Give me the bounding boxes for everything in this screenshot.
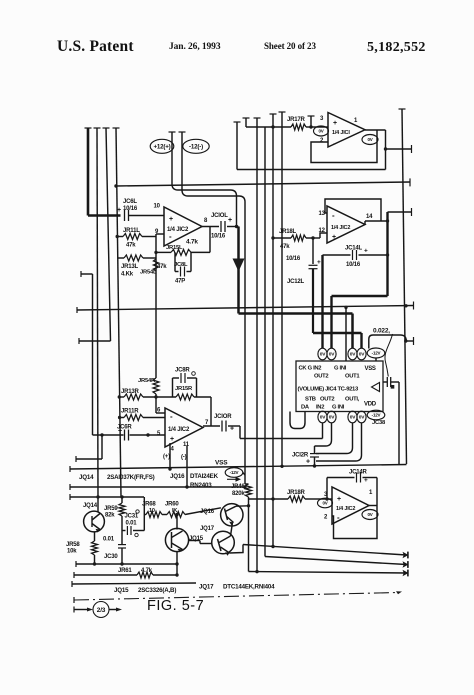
svg-text:1/4 JICI: 1/4 JICI (332, 130, 350, 136)
wire: JQ16 emitter into JQ17 base (231, 523, 233, 537)
svg-text:JR15R: JR15R (175, 386, 193, 392)
op-amp U-C 1/4 JIC2 (327, 206, 365, 243)
svg-text:2SC3326(A,B): 2SC3326(A,B) (138, 587, 176, 594)
op-amp U-A 1/4 JIC2 (164, 207, 202, 246)
node 0V oval at JIC1 + input (314, 126, 329, 136)
svg-text:JR15L: JR15L (166, 245, 183, 251)
resistor JR18R (248, 498, 288, 500)
wire: rail x=144 down to JR68 (143, 497, 145, 516)
capacitor JCIOR on U-B output (203, 425, 220, 427)
capacitor JC14R (327, 477, 355, 479)
capacitor JC12L 10/16 on line down to IC (311, 236, 314, 239)
svg-text:0V: 0V (367, 512, 372, 517)
VSS long rail to right vertical (69, 466, 71, 472)
input stub long line to right end bar (76, 307, 78, 313)
resistor JR46 820k on -12 rail (245, 483, 249, 485)
resistor JR11R (120, 417, 124, 419)
wire: JIC1 output (365, 129, 386, 131)
svg-text:Sheet 20 of 23: Sheet 20 of 23 (264, 41, 316, 51)
svg-text:+: + (228, 217, 232, 224)
svg-text:IN2: IN2 (316, 405, 324, 411)
svg-text:5,182,552: 5,182,552 (367, 40, 426, 55)
rail 2 (69, 484, 71, 490)
wire: U-B output right and down to IC pin line (239, 426, 241, 439)
test point marks (136, 510, 139, 513)
svg-text:+: + (230, 426, 234, 433)
svg-text:0.01: 0.01 (126, 521, 138, 527)
svg-text:+: + (337, 496, 341, 503)
wire: pin11 down (186, 446, 188, 487)
svg-text:JC14R: JC14R (349, 470, 368, 476)
IC edge marker triangle (372, 383, 380, 392)
svg-text:10/16: 10/16 (286, 256, 301, 262)
svg-text:JR54R: JR54R (138, 378, 156, 384)
wire: U-C feedback over top (325, 199, 381, 221)
svg-text:(+): (+) (163, 454, 170, 460)
wire: thin drop from long rail into IC top (345, 307, 347, 361)
node 0V oval at U-D input (318, 498, 333, 508)
svg-text:Jan. 26, 1993: Jan. 26, 1993 (169, 42, 221, 52)
IC top -12V oval at VSS pin (367, 348, 385, 358)
resistor JR18L 47k to pin 12 (273, 237, 291, 239)
wire: thick line with diode from JCIOL down and right to IC input (237, 227, 240, 314)
resistor JR59 82k (121, 497, 123, 503)
wire: thick riser and route to IC pin 2 (386, 212, 388, 296)
svg-text:VSS: VSS (215, 460, 228, 467)
svg-text:14: 14 (366, 214, 373, 220)
resistor JR60 1K (167, 512, 185, 518)
svg-text:10/16: 10/16 (123, 206, 138, 212)
input stub to bus x=106 (78, 338, 80, 344)
wire: vertical feedback line x=156 from pin9 down to pin6 of op-amp U-B (155, 234, 157, 378)
svg-text:JR11L: JR11L (123, 228, 140, 234)
wire: U-D output (369, 505, 377, 507)
capacitor JC8L 47P parallel loop (174, 252, 176, 271)
svg-text:+: + (332, 234, 336, 241)
svg-text:RN2403: RN2403 (190, 482, 212, 489)
capacitor JC30 0.01 (121, 531, 123, 545)
resistor JR17R (265, 126, 291, 128)
svg-text:JC6L: JC6L (123, 199, 137, 205)
svg-text:-12V: -12V (230, 470, 239, 475)
svg-text:JR17R: JR17R (287, 117, 306, 123)
svg-text:JR13L: JR13L (121, 264, 139, 270)
wire: JIC1 output to right vertical (385, 130, 387, 170)
wire: -12 rail bottom arrow line (249, 572, 407, 574)
resistor JR68 10 (146, 512, 162, 518)
input stub down to JC6R wire (80, 271, 82, 277)
left supply bus terminal tops (85, 127, 92, 129)
svg-text:OUT1: OUT1 (345, 374, 360, 380)
svg-text:4.7k: 4.7k (186, 239, 198, 246)
wire: op-amp A output with capacitor JCIOL 10/16 (202, 226, 219, 228)
wire: U-loop under IC STB/DA pins (290, 412, 305, 429)
svg-text:+: + (118, 428, 122, 435)
svg-text:JQ15: JQ15 (114, 587, 129, 594)
node 0V oval at JIC1 output (362, 135, 378, 145)
capacitor JC12R (314, 446, 316, 453)
wire: pin9 stub (156, 233, 164, 235)
resistor JR54R 47k vertical on x=156 (153, 378, 159, 394)
wire: bus line x=97 down to JQ14 collector rail (97, 128, 98, 497)
svg-text:DTAI24EK: DTAI24EK (190, 473, 219, 480)
wire: thick signal line from terminal x=88 down to JC6L (87, 128, 90, 216)
wire: JIC1 feedback loop (311, 130, 377, 163)
svg-text:0V: 0V (322, 501, 327, 506)
node 0V oval at U-D output (362, 510, 378, 520)
svg-text:JR61: JR61 (118, 568, 132, 574)
svg-text:JQ14: JQ14 (79, 474, 94, 481)
svg-text:JC8L: JC8L (174, 262, 188, 268)
svg-text:JR11R: JR11R (121, 409, 139, 415)
svg-text:JC14L: JC14L (345, 246, 363, 252)
op-amp U-B 1/4 JIC2 (156, 412, 165, 414)
supply label +12(+) (150, 139, 174, 153)
wire: feedback riser to output (209, 227, 211, 253)
svg-text:-12(-): -12(-) (189, 144, 203, 151)
svg-text:OUTI,: OUTI, (345, 397, 360, 403)
resistor network: JR13R on line into pin6 node (119, 396, 124, 398)
svg-text:JR68: JR68 (142, 502, 156, 508)
resistor JR15L 4.7k feedback (156, 251, 171, 253)
svg-text:+: + (364, 477, 368, 484)
svg-text:-12V: -12V (372, 351, 381, 356)
svg-text:FIG. 5-7: FIG. 5-7 (147, 598, 204, 614)
svg-text:+: + (117, 207, 121, 214)
svg-text:2/3: 2/3 (97, 607, 106, 614)
svg-text:JQ17: JQ17 (200, 526, 215, 532)
svg-text:OUT2: OUT2 (314, 374, 328, 380)
dash-dot section line with arrow (73, 597, 75, 603)
resistor JR11L 47k to pin 9 (117, 236, 123, 238)
svg-text:1/4 JIC2: 1/4 JIC2 (336, 506, 355, 512)
svg-text:47k: 47k (280, 244, 290, 250)
svg-text:(VOLUME) JIC4 TC-9213: (VOLUME) JIC4 TC-9213 (298, 387, 359, 393)
svg-text:1/4 JIC2: 1/4 JIC2 (167, 227, 189, 233)
wire: right side vertical from bypass cap (398, 382, 400, 464)
capacitor JC14L 10/16 in U-C loop (323, 254, 351, 256)
svg-text:0V: 0V (318, 129, 323, 134)
svg-text:4.7k: 4.7k (141, 568, 153, 574)
svg-text:JC12L: JC12L (287, 279, 305, 285)
wire: bus x=282 down to VSS rail (281, 112, 283, 466)
svg-text:U.S. Patent: U.S. Patent (57, 38, 134, 55)
wire: -12 supply rail from terminal down to bottom arrow line (179, 131, 186, 133)
wire: bottom rail of JQ14 stage (75, 561, 77, 567)
svg-text:JQ16: JQ16 (170, 473, 185, 480)
svg-text:+: + (333, 120, 337, 127)
wire: IC pin drop to op-amp B output line (322, 423, 324, 439)
resistor JR15R (176, 394, 194, 400)
resistor JR58 10k (92, 541, 98, 555)
op-amp JIC1 1/4 JIC1 (328, 113, 365, 148)
capacitor JC6R to pin 5 (93, 434, 124, 436)
svg-text:JR18L: JR18L (279, 229, 297, 235)
wire: long right vertical bus (399, 108, 406, 110)
svg-text:4.Kk: 4.Kk (121, 272, 134, 278)
wire: JQ15 to JQ17 base (189, 540, 201, 542)
node: pin9 net junction (154, 251, 157, 254)
svg-text:G INI: G INI (332, 405, 345, 411)
diode (signal direction marker) (233, 259, 245, 272)
svg-text:+: + (170, 436, 174, 443)
svg-text:820k: 820k (232, 491, 245, 497)
wire: IC pin drop 4 bend (316, 423, 362, 461)
svg-text:JC38: JC38 (372, 420, 386, 426)
svg-text:10/16: 10/16 (346, 262, 361, 268)
svg-text:+12(+): +12(+) (153, 144, 170, 151)
label row JQ15 type (71, 581, 73, 587)
svg-text:JR59: JR59 (104, 506, 118, 512)
svg-text:-12V: -12V (372, 413, 381, 418)
wire: bus x=273 down to line A (272, 114, 274, 547)
wire: thick drop to IC pin 1 (321, 255, 323, 349)
rail 3 to JQ14 cluster (69, 494, 71, 500)
svg-text:JQ17: JQ17 (199, 584, 214, 591)
wire: JQ16 collector to -12 rail (236, 505, 249, 507)
svg-text:G INI: G INI (334, 366, 347, 372)
svg-text:JQ16: JQ16 (200, 509, 215, 515)
svg-text:DA: DA (301, 405, 310, 411)
svg-text:STB: STB (305, 397, 316, 403)
top bus terminals middle (234, 121, 241, 123)
svg-text:VSS: VSS (365, 366, 376, 372)
svg-text:JC8R: JC8R (175, 368, 190, 374)
wire: U-C output to thick riser (364, 221, 366, 225)
input stub bottom left (75, 456, 77, 462)
svg-text:2SAI037K(FR,FS): 2SAI037K(FR,FS) (107, 474, 155, 481)
wire: bus line x=116 down to transistor rail (116, 128, 121, 497)
svg-text:0.022,: 0.022, (373, 328, 390, 335)
op-amp U-D 1/4 JIC2 (332, 487, 369, 524)
svg-text:JQ15: JQ15 (189, 536, 204, 542)
supply label -12(-) (183, 139, 209, 153)
svg-text:JR13R: JR13R (121, 389, 140, 395)
wire: long horizontal rail from bus to right end bar (116, 182, 410, 186)
svg-text:JC31: JC31 (125, 514, 139, 520)
wire: pin4 down (169, 443, 171, 469)
svg-text:82k: 82k (105, 513, 115, 519)
wire: stub to end bar upper right (386, 148, 412, 150)
wire: bus A x=237 to JIC1 loop (236, 122, 238, 170)
wire: bus line x=106 down to input stub row (106, 128, 111, 341)
node: pin6 junction (154, 395, 157, 398)
svg-text:+: + (317, 259, 321, 266)
wire: JQ17 emitter jog to arrow line (230, 545, 244, 554)
svg-text:JCIOL: JCIOL (211, 213, 228, 219)
svg-text:+: + (306, 459, 310, 466)
wire: bus x=265 bottom arrow line (265, 557, 407, 565)
svg-text:JCIOR: JCIOR (214, 414, 232, 420)
resistor JR13L 4.Kk (117, 257, 124, 259)
sheet reference 2/3 bubble (73, 607, 75, 613)
wire: stub to end bar at right (388, 211, 412, 213)
arrow marker under -12V oval (227, 478, 238, 480)
wire: IC pin drop 3 bend (316, 423, 353, 454)
node: junction of bus x=116 with long horizontal rail (114, 184, 117, 187)
IC top pin voltage ovals (318, 348, 327, 360)
svg-text:0.01: 0.01 (103, 537, 115, 543)
svg-text:JR58: JR58 (66, 542, 80, 548)
svg-text:JR18R: JR18R (287, 490, 306, 496)
svg-text:VDD: VDD (364, 402, 377, 408)
svg-text:JQ14: JQ14 (83, 503, 98, 509)
wire: bus x=257 down to bottom line C (256, 118, 258, 572)
svg-text:+: + (364, 248, 368, 255)
svg-text:0V: 0V (367, 137, 372, 142)
node: JR46 to JQ16 collector (247, 504, 250, 507)
wire: bus B jog x=246 to x=265 (245, 118, 247, 127)
wire: bus x=265 down to bottom line B (264, 127, 266, 557)
IC bottom pin voltage ovals (318, 411, 327, 423)
svg-text:1/4 JIC2: 1/4 JIC2 (168, 427, 190, 433)
svg-text:1/4 JIC2: 1/4 JIC2 (331, 225, 350, 231)
-12V oval on -12 supply rail (225, 468, 243, 478)
svg-text:10: 10 (149, 508, 155, 514)
svg-text:47k: 47k (126, 243, 136, 249)
terminal stub x=311 into JR17R wire (310, 116, 312, 127)
IC bypass capacitor with polarity mark (383, 381, 387, 383)
svg-text:+: + (169, 216, 173, 223)
svg-text:CK G IN2: CK G IN2 (299, 366, 322, 372)
stub from right vertical to end bar (406, 340, 414, 342)
wire: VSS oval up and over to right vertical (369, 335, 407, 349)
IC JIC4 TC-9213 volume block (296, 361, 383, 412)
svg-text:47P: 47P (175, 279, 185, 285)
wire: IC pin drop feeding JC12R (315, 423, 332, 446)
svg-text:10k: 10k (67, 549, 77, 555)
svg-text:JC30: JC30 (104, 554, 118, 560)
svg-text:10/16: 10/16 (211, 234, 226, 240)
wire: thick route into IC pin 4 (313, 332, 362, 334)
svg-text:(-): (-) (181, 455, 187, 461)
wire: U-D feedback loop bottom (332, 506, 377, 539)
wire: +12 line from terminal down and over to signal node (169, 131, 176, 133)
svg-text:JR60: JR60 (165, 502, 179, 508)
svg-text:DTC144EK,RNI404: DTC144EK,RNI404 (223, 584, 275, 591)
wire: feedback from output corner (210, 397, 212, 426)
wire: JQ17 emitter line to right arrow (243, 545, 407, 556)
resistor JR61 4.7k line (73, 572, 75, 578)
svg-text:10: 10 (154, 204, 161, 210)
capacitor JC8R loop (172, 378, 174, 397)
svg-text:OUT2: OUT2 (320, 397, 334, 403)
IC bottom -12V oval JC38 at VDD pin (367, 410, 385, 420)
